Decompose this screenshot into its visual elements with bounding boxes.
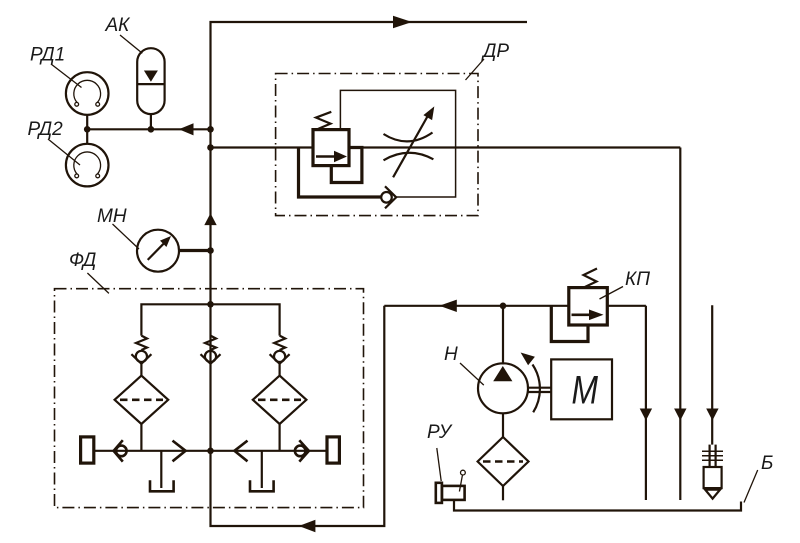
- svg-text:РУ: РУ: [427, 422, 453, 443]
- svg-text:М: М: [572, 369, 599, 413]
- svg-text:Н: Н: [444, 344, 458, 365]
- svg-text:ФД: ФД: [69, 250, 96, 271]
- svg-text:АК: АК: [105, 15, 132, 36]
- svg-text:РД2: РД2: [28, 119, 64, 140]
- svg-text:МН: МН: [97, 206, 127, 227]
- svg-text:РД1: РД1: [30, 45, 65, 66]
- svg-text:КП: КП: [625, 269, 650, 290]
- svg-text:Б: Б: [761, 453, 773, 474]
- svg-text:ДР: ДР: [481, 41, 509, 62]
